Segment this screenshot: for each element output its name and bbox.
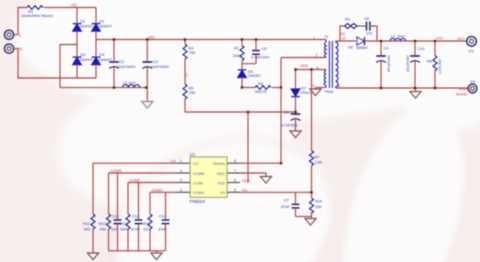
wire: C11 drop xyxy=(117,173,119,220)
svg-text:R11: R11 xyxy=(121,222,128,226)
svg-text:R7: R7 xyxy=(315,156,320,160)
svg-text:8: 8 xyxy=(234,159,236,163)
diode D3 xyxy=(73,57,82,65)
resistor R4 xyxy=(184,40,186,45)
wire: clamp tie xyxy=(242,63,256,65)
diode D1 xyxy=(73,24,82,32)
wire: COMR net xyxy=(109,172,177,174)
capacitor C13 xyxy=(162,220,170,224)
snubber leg left xyxy=(340,26,344,41)
wire: VDD drop to pin6 xyxy=(247,112,249,183)
svg-text:U1: U1 xyxy=(190,152,196,157)
svg-text:D4: D4 xyxy=(100,53,105,57)
svg-text:1.5K: 1.5K xyxy=(315,161,323,165)
svg-text:D2: D2 xyxy=(100,20,105,24)
wire: COMV net xyxy=(150,191,177,193)
svg-text:VS: VS xyxy=(220,191,226,195)
ground under R14 xyxy=(311,217,313,219)
IC U1 xyxy=(190,157,227,197)
wire: drain pin8 xyxy=(240,162,281,164)
svg-text:C12: C12 xyxy=(132,215,139,219)
capacitor C10 xyxy=(414,41,416,56)
svg-text:D8: D8 xyxy=(348,46,353,50)
svg-text:DRAIN: DRAIN xyxy=(213,162,225,166)
svg-text:5uH: 5uH xyxy=(398,35,405,39)
svg-text:10nF: 10nF xyxy=(158,228,167,232)
resistor R11 xyxy=(126,214,130,229)
wire xyxy=(242,87,255,89)
connector P2 xyxy=(468,84,477,93)
svg-text:1: 1 xyxy=(313,36,315,40)
svg-text:4: 4 xyxy=(180,188,182,192)
wire: aux pin3 to ground xyxy=(316,87,327,89)
svg-text:+C3: +C3 xyxy=(151,60,158,64)
wire: drain vertical xyxy=(280,58,282,164)
wire: secondary top to D8 xyxy=(336,40,356,42)
wire: C7 R14 tie xyxy=(296,216,312,218)
wire: primary pin2 xyxy=(281,57,326,59)
wire xyxy=(95,31,97,56)
resistor R13 xyxy=(148,214,152,229)
wire: L terminal to R1 xyxy=(14,34,18,36)
connector P1 xyxy=(467,37,477,47)
transformer T1 aux winding xyxy=(324,70,326,88)
svg-text:6: 6 xyxy=(234,179,236,183)
svg-text:2: 2 xyxy=(186,74,188,78)
svg-text:P2: P2 xyxy=(471,79,477,84)
svg-text:6: 6 xyxy=(338,84,340,88)
ground under R12 xyxy=(87,253,98,260)
svg-text:220uF/16V: 220uF/16V xyxy=(406,55,410,72)
diode D2 xyxy=(92,24,101,32)
capacitor C7 xyxy=(295,192,297,203)
svg-text:300: 300 xyxy=(148,34,155,39)
svg-text:0R27K: 0R27K xyxy=(255,90,267,94)
diode D8 xyxy=(357,37,364,45)
svg-text:COMV: COMV xyxy=(152,188,164,192)
resistor R12 xyxy=(91,214,95,229)
IC pin stubs right xyxy=(227,163,240,192)
svg-text:R6: R6 xyxy=(258,82,263,86)
svg-text:R8: R8 xyxy=(427,60,432,64)
capacitor C2 xyxy=(113,40,115,63)
resistor R8 xyxy=(434,41,436,56)
svg-text:FR107: FR107 xyxy=(301,91,312,95)
wire: C12 drop xyxy=(138,183,140,221)
svg-text:390K: 390K xyxy=(120,228,129,232)
wire: top HV rail xyxy=(96,39,326,41)
svg-text:R2: R2 xyxy=(234,46,239,50)
transformer T1 primary winding xyxy=(325,40,326,58)
wire: R1 to bridge top xyxy=(44,7,96,9)
svg-text:GND: GND xyxy=(217,172,226,176)
svg-text:D1: D1 xyxy=(81,20,86,24)
wire: VDD line xyxy=(185,111,296,113)
capacitor C3 xyxy=(146,40,148,63)
svg-text:100/0.5W: 100/0.5W xyxy=(438,59,442,74)
svg-text:C13: C13 xyxy=(159,215,166,219)
svg-text:COMI: COMI xyxy=(193,182,203,186)
svg-text:CS: CS xyxy=(193,162,199,166)
svg-text:VO+: VO+ xyxy=(457,36,466,41)
resistor R5 xyxy=(183,84,187,99)
wire xyxy=(295,97,297,114)
capacitor C12 xyxy=(135,220,143,224)
svg-text:10: 10 xyxy=(342,36,346,40)
svg-text:1N4007: 1N4007 xyxy=(99,25,112,29)
wire: bottom bus xyxy=(109,250,166,252)
wire: secondary rail xyxy=(365,40,467,42)
wire: primary bottom rail xyxy=(60,87,147,89)
svg-text:VO+: VO+ xyxy=(436,36,445,41)
svg-text:L2: L2 xyxy=(391,35,395,39)
svg-text:75K: 75K xyxy=(189,91,196,95)
svg-text:N: N xyxy=(19,47,22,52)
svg-text:2: 2 xyxy=(316,54,318,58)
inductor L2 xyxy=(390,38,406,41)
svg-text:VDD: VDD xyxy=(217,182,225,186)
svg-text:1N4007: 1N4007 xyxy=(248,74,261,78)
ground AGND xyxy=(415,88,417,92)
svg-text:C11: C11 xyxy=(112,215,119,219)
svg-text:47nF: 47nF xyxy=(281,205,290,209)
svg-text:D3: D3 xyxy=(81,53,86,57)
resistor R10 xyxy=(107,214,111,229)
wire xyxy=(241,64,243,70)
svg-text:COMV: COMV xyxy=(193,191,205,195)
resistor R14 xyxy=(311,192,313,198)
wire xyxy=(241,78,243,88)
svg-text:P1: P1 xyxy=(469,49,475,54)
svg-text:SB560: SB560 xyxy=(356,46,367,50)
svg-text:VDD: VDD xyxy=(300,64,308,68)
resistor R3 xyxy=(345,24,359,29)
svg-text:D7: D7 xyxy=(301,87,306,91)
wire xyxy=(184,59,186,84)
svg-text:3: 3 xyxy=(313,84,315,88)
svg-text:AGND: AGND xyxy=(456,92,468,97)
wire: COMI net xyxy=(128,182,177,184)
wire: bridge right column xyxy=(95,8,97,24)
transformer secondary winding xyxy=(336,41,338,88)
svg-text:+C2: +C2 xyxy=(117,60,124,64)
capacitor C6 xyxy=(291,114,301,120)
svg-text:R3: R3 xyxy=(345,18,350,22)
resistor R7 xyxy=(311,70,313,151)
svg-text:AGND: AGND xyxy=(459,86,471,91)
svg-text:R13: R13 xyxy=(143,222,150,226)
wire: gnd pin7 xyxy=(240,172,266,174)
pin numbers xyxy=(180,159,236,192)
svg-text:VDD: VDD xyxy=(242,179,250,183)
svg-text:C8: C8 xyxy=(364,17,369,21)
inductor L1 xyxy=(123,85,140,88)
wire: C13 drop xyxy=(165,192,167,220)
connector N xyxy=(4,44,13,53)
resistor R2 xyxy=(241,40,243,46)
svg-text:AC: AC xyxy=(71,3,77,8)
svg-text:2: 2 xyxy=(180,169,182,173)
ground under C3 xyxy=(146,88,148,102)
svg-text:5: 5 xyxy=(234,188,236,192)
svg-text:3: 3 xyxy=(180,179,182,183)
wire xyxy=(95,65,97,78)
svg-text:1N4007: 1N4007 xyxy=(80,58,93,62)
svg-text:47uF/50V: 47uF/50V xyxy=(282,124,299,128)
svg-text:4.7NF/1KV: 4.7NF/1KV xyxy=(251,56,270,60)
svg-text:100: 100 xyxy=(143,228,149,232)
svg-text:C9: C9 xyxy=(384,47,389,51)
svg-text:L1 1uH: L1 1uH xyxy=(123,81,136,85)
svg-text:R12: R12 xyxy=(83,222,90,226)
svg-text:R4: R4 xyxy=(189,46,194,50)
diode D4 xyxy=(92,57,101,65)
svg-text:C6: C6 xyxy=(284,111,289,115)
resistor R1 xyxy=(27,6,43,10)
wire: bridge left column xyxy=(76,8,78,24)
ground under C6 xyxy=(290,131,301,138)
svg-text:TR06: TR06 xyxy=(324,90,333,94)
wire: CS net xyxy=(93,162,177,164)
svg-text:47nF: 47nF xyxy=(131,228,140,232)
ground bus right xyxy=(156,251,158,253)
capacitor C5 xyxy=(255,40,257,51)
svg-text:R5: R5 xyxy=(189,86,194,90)
svg-text:COMR: COMR xyxy=(110,169,122,173)
diode D6 xyxy=(238,70,247,78)
svg-text:COMR: COMR xyxy=(193,172,205,176)
svg-text:C7: C7 xyxy=(284,199,289,203)
transformer core xyxy=(329,41,332,88)
wire xyxy=(76,31,78,56)
svg-text:R14: R14 xyxy=(315,200,322,204)
svg-text:10uF/400V: 10uF/400V xyxy=(151,65,170,69)
capacitor C9 xyxy=(380,41,382,56)
svg-text:R10: R10 xyxy=(99,222,106,226)
resistor R6 xyxy=(255,86,271,90)
svg-text:COMI: COMI xyxy=(130,179,140,183)
svg-text:10ohm/Wire Wound: 10ohm/Wire Wound xyxy=(21,14,53,18)
wire xyxy=(76,65,78,78)
svg-text:100K: 100K xyxy=(233,54,242,58)
wire: vertical up to R1 xyxy=(18,8,27,35)
wire: secondary bottom rail xyxy=(336,87,468,89)
wire: VS pin5 xyxy=(240,191,312,193)
wire: aux pin4 xyxy=(296,69,327,71)
wire: bridge minus out xyxy=(60,45,77,88)
svg-text:10uF/400V: 10uF/400V xyxy=(117,65,136,69)
svg-text:1: 1 xyxy=(180,159,182,163)
svg-text:43K: 43K xyxy=(100,228,107,232)
IC pin stubs left xyxy=(177,163,191,192)
svg-text:470uF/16V: 470uF/16V xyxy=(387,55,391,72)
connector L xyxy=(4,30,13,39)
ground IC xyxy=(260,177,271,184)
svg-text:T1: T1 xyxy=(324,35,328,39)
svg-text:7: 7 xyxy=(234,169,236,173)
wire: N terminal down to AC2 tie xyxy=(14,49,96,78)
svg-text:75K: 75K xyxy=(189,51,196,55)
svg-text:PN8024: PN8024 xyxy=(190,199,206,204)
svg-text:C5: C5 xyxy=(262,47,267,51)
wire: chain down to VDD line xyxy=(184,99,186,112)
svg-text:222: 222 xyxy=(366,32,372,36)
wire xyxy=(272,87,281,89)
capacitor C8 xyxy=(358,25,366,27)
svg-text:1N4007: 1N4007 xyxy=(80,25,93,29)
ground transformer pin3 xyxy=(310,89,321,96)
capacitor C11 xyxy=(114,220,122,224)
svg-text:6K2: 6K2 xyxy=(84,228,91,232)
svg-text:1nF: 1nF xyxy=(111,228,118,232)
diode D7 xyxy=(295,70,297,90)
snubber leg right xyxy=(370,26,377,41)
svg-text:C10: C10 xyxy=(418,47,425,51)
svg-text:10K: 10K xyxy=(315,205,322,209)
